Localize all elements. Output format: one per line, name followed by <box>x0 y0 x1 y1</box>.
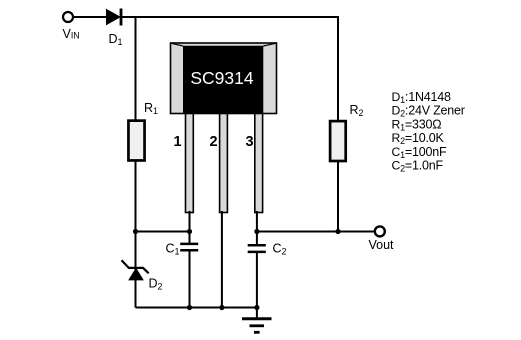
capacitor C1 <box>180 244 198 250</box>
wire C1 to bottom rail <box>189 250 191 307</box>
wire pin2 down to bottom rail <box>221 211 223 308</box>
wire top rail <box>122 16 338 18</box>
wire right node (C2 to Vout) <box>257 231 375 233</box>
junction dot left node at pin1 wire <box>187 229 192 234</box>
junction dot ground at bottom rail <box>254 305 259 310</box>
wire bottom rail <box>136 307 257 309</box>
svg-text:3: 3 <box>246 134 254 150</box>
resistor R1 <box>128 121 144 161</box>
wire right rail <box>337 16 339 232</box>
pin 3 <box>255 114 263 213</box>
svg-text:2: 2 <box>210 134 218 150</box>
svg-text:R1=330Ω: R1=330Ω <box>392 117 442 132</box>
zener diode D2 <box>122 260 149 280</box>
diode D1 <box>107 9 122 26</box>
junction dot pin2 at bottom rail <box>219 305 224 310</box>
wire VIN to D1 <box>74 16 107 18</box>
junction dot C1 at bottom rail <box>187 305 192 310</box>
svg-text:SC9314: SC9314 <box>190 68 254 88</box>
wire left rail <box>135 16 137 308</box>
ground <box>242 308 272 333</box>
junction dot at C2 top <box>254 229 259 234</box>
terminal Vout <box>375 226 385 236</box>
svg-text:R2=10.0K: R2=10.0K <box>392 131 445 146</box>
wire pin3 down to C2 <box>256 211 258 246</box>
resistor R2 <box>330 121 346 161</box>
pin 2 <box>220 114 228 213</box>
wire left node (R1 bottom to pin1) <box>136 231 190 233</box>
capacitor C2 <box>248 245 266 252</box>
svg-text:1: 1 <box>174 134 182 150</box>
wire C2 to bottom rail <box>256 252 258 308</box>
op-amp U1 SC9314 package body <box>171 43 277 114</box>
junction dot left node at rail <box>133 229 138 234</box>
junction dot at R2 bottom <box>335 229 340 234</box>
svg-text:C2=1.0nF: C2=1.0nF <box>392 159 444 174</box>
svg-text:Vout: Vout <box>369 238 395 252</box>
pin 1 <box>186 114 194 213</box>
wire pin1 down to C1 <box>189 211 191 245</box>
terminal VIN <box>63 12 73 22</box>
